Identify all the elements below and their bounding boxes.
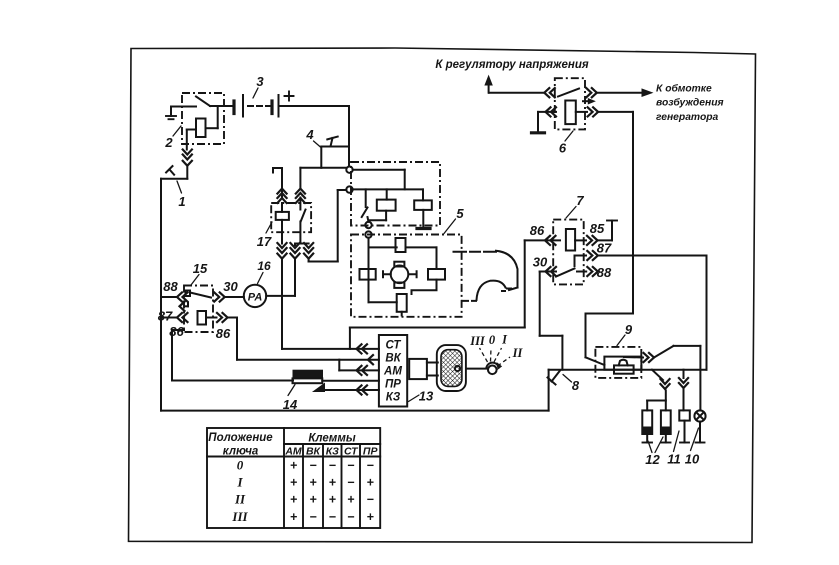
svg-text:К обмотке: К обмотке (656, 83, 712, 95)
svg-text:30: 30 (533, 255, 548, 270)
svg-text:−: − (329, 459, 337, 473)
svg-text:11: 11 (667, 452, 681, 467)
svg-text:10: 10 (685, 452, 700, 467)
svg-text:−: − (367, 459, 375, 473)
svg-text:0: 0 (237, 458, 244, 473)
svg-text:−: − (347, 476, 355, 490)
svg-text:87: 87 (597, 241, 612, 256)
svg-text:85: 85 (590, 221, 605, 236)
svg-text:РА: РА (248, 291, 263, 303)
svg-text:СТ: СТ (344, 446, 359, 458)
svg-text:I: I (236, 475, 243, 490)
svg-text:+: + (290, 459, 298, 473)
svg-text:АМ: АМ (383, 366, 402, 378)
svg-text:88: 88 (163, 279, 178, 294)
svg-text:генератора: генератора (656, 112, 719, 123)
svg-text:Клеммы: Клеммы (308, 433, 355, 445)
svg-text:К регулятору напряжения: К регулятору напряжения (435, 59, 589, 71)
svg-text:КЗ: КЗ (326, 446, 339, 458)
svg-text:15: 15 (193, 261, 208, 276)
svg-text:2: 2 (164, 135, 173, 150)
svg-text:+: + (290, 510, 298, 524)
svg-text:8: 8 (572, 378, 580, 393)
svg-text:ВК: ВК (306, 446, 322, 458)
svg-text:ПР: ПР (385, 379, 401, 391)
svg-text:ВК: ВК (385, 353, 401, 365)
svg-text:+: + (329, 493, 337, 507)
svg-text:6: 6 (559, 141, 567, 156)
svg-text:13: 13 (419, 389, 434, 404)
svg-text:III: III (469, 334, 486, 348)
svg-text:II: II (234, 492, 246, 507)
svg-text:30: 30 (223, 279, 238, 294)
svg-text:+: + (347, 493, 355, 507)
svg-text:86: 86 (530, 223, 545, 238)
svg-text:−: − (367, 493, 375, 507)
svg-text:III: III (231, 509, 248, 524)
svg-text:−: − (347, 459, 355, 473)
svg-text:12: 12 (645, 452, 660, 467)
svg-text:4: 4 (305, 127, 314, 142)
svg-text:Положение: Положение (208, 432, 273, 444)
svg-text:ключа: ключа (223, 446, 259, 458)
svg-text:9: 9 (625, 322, 633, 337)
svg-text:−: − (309, 510, 317, 524)
svg-text:+: + (309, 493, 317, 507)
svg-text:II: II (512, 346, 524, 360)
svg-text:5: 5 (456, 206, 464, 221)
svg-text:АМ: АМ (284, 446, 302, 458)
svg-text:3: 3 (256, 74, 264, 89)
svg-text:+: + (329, 476, 337, 490)
svg-text:ПР: ПР (363, 446, 379, 458)
svg-text:16: 16 (257, 259, 271, 273)
svg-text:−: − (347, 510, 355, 524)
svg-text:КЗ: КЗ (386, 392, 401, 404)
svg-text:−: − (329, 510, 337, 524)
svg-text:88: 88 (597, 265, 612, 280)
svg-text:+: + (367, 476, 375, 490)
svg-text:86: 86 (169, 324, 184, 339)
svg-text:−: − (309, 459, 317, 473)
svg-text:+: + (290, 476, 298, 490)
svg-text:17: 17 (257, 234, 272, 249)
svg-text:+: + (367, 510, 375, 524)
svg-text:возбуждения: возбуждения (656, 97, 724, 109)
svg-text:+: + (309, 476, 317, 490)
svg-text:1: 1 (178, 194, 185, 209)
svg-text:7: 7 (576, 193, 584, 208)
svg-text:86: 86 (216, 326, 231, 341)
svg-text:СТ: СТ (386, 340, 402, 352)
svg-text:87: 87 (158, 309, 173, 324)
svg-text:0: 0 (489, 333, 496, 347)
svg-text:+: + (290, 493, 298, 507)
